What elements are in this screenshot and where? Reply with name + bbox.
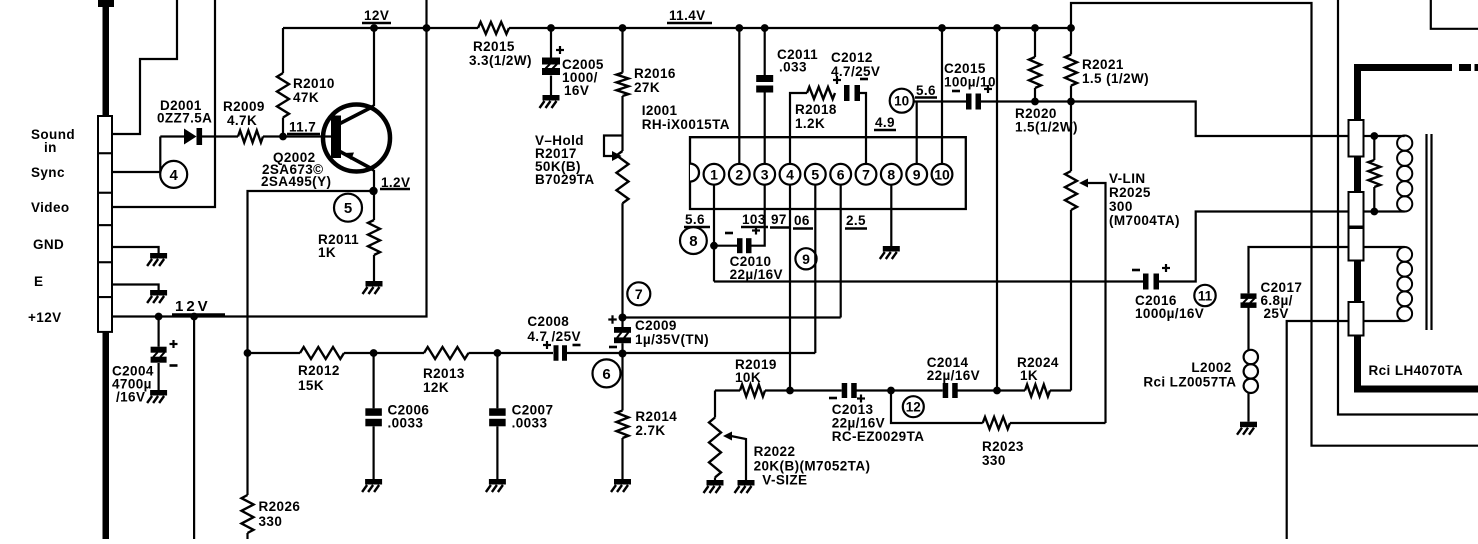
svg-text:5.6: 5.6 <box>916 83 936 98</box>
svg-text:R2025: R2025 <box>1109 185 1151 200</box>
label R2026 <box>259 499 301 529</box>
label D2001 <box>157 98 212 126</box>
svg-text:7: 7 <box>635 286 643 302</box>
capacitor C2015 <box>966 94 981 110</box>
node 6 <box>593 359 621 387</box>
yoke connector box A <box>1349 120 1364 157</box>
wire C2015 to yoke <box>981 102 1349 137</box>
capacitor C2013 <box>842 383 857 398</box>
capacitor C2017 <box>1241 293 1257 308</box>
wire diode anode <box>160 135 184 137</box>
wire pin4 down <box>789 185 791 391</box>
plus C2010 <box>752 227 760 235</box>
ground R2014 <box>611 479 631 492</box>
svg-text:22µ/16V: 22µ/16V <box>730 267 783 282</box>
svg-text:7: 7 <box>862 166 870 182</box>
svg-text:RC-EZ0029TA: RC-EZ0029TA <box>832 429 925 444</box>
wire pin8 to ground <box>890 185 892 246</box>
node 12 <box>903 396 924 417</box>
svg-text:L2002: L2002 <box>1191 360 1231 375</box>
svg-text:5: 5 <box>344 200 352 217</box>
svg-text:V-SIZE: V-SIZE <box>762 473 807 488</box>
svg-text:97: 97 <box>771 212 787 227</box>
yoke core <box>1427 134 1432 330</box>
voltage 5.6 at pin9 <box>915 83 937 98</box>
svg-text:25V: 25V <box>1264 306 1289 321</box>
svg-text:1.2K: 1.2K <box>795 116 825 131</box>
wire diode to R2009 <box>202 135 238 137</box>
diode D2001 <box>184 128 202 145</box>
svg-text:8: 8 <box>689 233 697 250</box>
label C2017 <box>1261 280 1303 321</box>
wire 11.4V to yoke top <box>1071 3 1478 446</box>
svg-text:20K(B)(M7052TA): 20K(B)(M7052TA) <box>754 459 871 474</box>
resistor R2020 <box>1029 28 1041 102</box>
junction pin10 rail <box>938 24 946 32</box>
svg-text:4.7/25V: 4.7/25V <box>831 64 880 79</box>
wire chain <box>248 352 301 354</box>
svg-text:0ZZ7.5A: 0ZZ7.5A <box>157 111 212 126</box>
ground GND pin <box>147 253 167 266</box>
IC pin 5 <box>805 164 826 185</box>
svg-text:R2018: R2018 <box>795 102 837 117</box>
capacitor C2016 <box>1143 274 1159 290</box>
ground R2011 <box>363 281 383 294</box>
svg-text:27K: 27K <box>634 80 660 95</box>
junction R2020 top <box>1031 24 1039 32</box>
label 12V <box>362 8 391 23</box>
svg-text:1µ/35V(TN): 1µ/35V(TN) <box>635 332 709 347</box>
wire pin4 up to R2018 <box>790 93 807 164</box>
wire R2026 down <box>246 353 248 495</box>
plus C2013 <box>857 395 865 403</box>
junction 12V mid <box>190 313 198 321</box>
label R2014 <box>635 409 677 438</box>
IC pin 7 <box>856 164 877 185</box>
plus C2015 <box>984 85 992 93</box>
wire chain 2 <box>344 352 424 354</box>
yoke thick bus top <box>1354 64 1478 120</box>
plus C2012 <box>833 76 841 84</box>
yoke thick bus seg1 <box>1354 157 1361 193</box>
junction base node <box>279 133 287 141</box>
label R2019 <box>735 357 777 385</box>
svg-text:12V: 12V <box>175 298 211 315</box>
svg-text:R2012: R2012 <box>298 363 340 378</box>
power rail 12V/11.4V <box>283 27 1071 29</box>
IC pin 8 <box>881 164 902 185</box>
svg-text:1.5 (1/2W): 1.5 (1/2W) <box>1082 71 1149 86</box>
svg-text:5: 5 <box>811 166 819 182</box>
label C2006 <box>388 403 430 431</box>
junction rail drop <box>993 387 1001 395</box>
label R2016 <box>634 66 676 95</box>
label C2016 <box>1135 293 1204 321</box>
IC pin 4 <box>780 164 801 185</box>
plus C2009 <box>608 315 616 323</box>
minus C2013 <box>829 397 837 400</box>
svg-text:10K: 10K <box>735 370 761 385</box>
label C2007 <box>512 403 554 431</box>
label C2010 <box>730 254 783 282</box>
svg-text:Rci LH4070TA: Rci LH4070TA <box>1369 363 1464 378</box>
svg-text:V-LIN: V-LIN <box>1109 171 1146 186</box>
node 8 <box>680 227 707 254</box>
wire Video to top <box>112 0 215 207</box>
label R2025 <box>1109 171 1180 228</box>
IC pin 2 <box>729 164 750 185</box>
junction C2009 top <box>619 314 627 322</box>
resistor R2021 <box>1065 28 1077 102</box>
ground R2022 <box>704 480 724 493</box>
junction rail drop top <box>993 24 1001 32</box>
junction C2007 <box>494 349 502 357</box>
wire chain 3 <box>469 352 554 354</box>
svg-text:12: 12 <box>906 400 921 415</box>
svg-text:15K: 15K <box>298 378 324 393</box>
label R2024 <box>1017 355 1059 383</box>
capacitor C2011 <box>756 75 773 93</box>
wire top right corner <box>1431 0 1478 29</box>
ground R2022 wiper <box>735 480 755 493</box>
wire C2017 to coil2 <box>1249 247 1349 293</box>
svg-text:3.3(1/2W): 3.3(1/2W) <box>469 53 532 68</box>
label R2015 <box>469 39 532 68</box>
svg-text:47K: 47K <box>293 90 319 105</box>
node 5 <box>334 194 362 222</box>
junction C2011 rail <box>761 24 769 32</box>
svg-text:Video: Video <box>31 200 70 215</box>
capacitor C2004 <box>151 317 167 391</box>
voltage 5.6 at pin1 <box>684 212 710 227</box>
label C2014 <box>927 355 980 383</box>
svg-text:5.6: 5.6 <box>685 212 705 227</box>
label 12V mid <box>172 298 225 315</box>
junction emitter chain <box>244 349 252 357</box>
wire emitter left <box>248 191 375 353</box>
resistor R2023 <box>983 417 1106 429</box>
svg-text:11.4V: 11.4V <box>669 8 706 23</box>
plus C2008 <box>543 341 551 349</box>
potentiometer R2017 V-Hold <box>604 136 629 318</box>
wire vertical right 2 <box>1338 0 1478 415</box>
wire C2016 to yoke <box>1159 212 1374 282</box>
svg-text:2: 2 <box>735 166 743 182</box>
svg-text:3: 3 <box>761 166 769 182</box>
connector board edge (thick bar) <box>98 0 114 539</box>
label Sync <box>31 165 65 180</box>
wire pin1 output <box>714 280 1143 282</box>
junction R2020 bottom <box>1031 98 1039 106</box>
wire C2014 right <box>957 389 1025 391</box>
svg-text:330: 330 <box>259 514 283 529</box>
connector pins (Sound in, Sync, Video, GND, E, +12V) <box>98 116 112 332</box>
IC pin 1 <box>704 164 725 185</box>
svg-text:C2012: C2012 <box>831 50 873 65</box>
svg-text:.0033: .0033 <box>388 416 424 431</box>
voltage 2.5 at pin7 <box>845 213 867 229</box>
svg-text:06: 06 <box>794 213 810 228</box>
capacitor C2007 <box>489 353 506 479</box>
svg-text:1000µ/16V: 1000µ/16V <box>1135 306 1204 321</box>
voltage 103 at pin3 <box>741 212 768 227</box>
junction R2021 bottom <box>1067 98 1075 106</box>
label R2021 <box>1082 57 1149 86</box>
label R2018 <box>795 102 837 131</box>
svg-text:22µ/16V: 22µ/16V <box>927 368 980 383</box>
ground C2004 <box>147 390 167 403</box>
voltage 06 at pin5 <box>793 213 813 229</box>
junction pin2 rail <box>735 24 743 32</box>
IC pin 6 <box>830 164 851 185</box>
svg-text:R2015: R2015 <box>473 39 515 54</box>
voltage 11.7 <box>287 120 320 135</box>
svg-text:2SA495(Y): 2SA495(Y) <box>261 174 331 189</box>
svg-text:.0033: .0033 <box>512 416 548 431</box>
resistor R2010 <box>277 28 289 137</box>
label C2005 <box>562 57 604 98</box>
svg-text:16V: 16V <box>564 83 589 98</box>
capacitor C2008 <box>554 345 568 361</box>
wire pin9 up <box>916 102 918 164</box>
wire box D left <box>1287 321 1349 539</box>
svg-text:R2010: R2010 <box>293 76 335 91</box>
wire C2011 to rail <box>764 28 766 75</box>
ground E pin <box>147 290 167 303</box>
junction coil1 top <box>1370 132 1378 140</box>
svg-text:/16V: /16V <box>116 390 145 405</box>
wire Sync to diode <box>112 137 160 173</box>
transistor Q2002 <box>323 105 390 172</box>
minus C2004 <box>170 364 178 367</box>
wire C2009 top to pin6 <box>623 316 841 318</box>
svg-text:1K: 1K <box>1020 368 1038 383</box>
svg-text:12K: 12K <box>423 380 449 395</box>
svg-text:R2009: R2009 <box>223 99 265 114</box>
ground C2005 <box>540 95 560 108</box>
svg-text:R2013: R2013 <box>423 366 465 381</box>
svg-text:2.5: 2.5 <box>846 213 866 228</box>
wire R2009 to base <box>263 135 331 137</box>
wire pin5 down <box>814 185 816 353</box>
svg-text:(M7004TA): (M7004TA) <box>1109 213 1180 228</box>
svg-text:C2008: C2008 <box>527 314 569 329</box>
svg-text:4: 4 <box>170 167 179 184</box>
svg-text:C2009: C2009 <box>635 318 677 333</box>
svg-text:9: 9 <box>913 166 921 182</box>
label R2013 <box>423 366 465 395</box>
label L2002 <box>1143 360 1236 390</box>
resistor R2014 <box>617 353 629 479</box>
capacitor C2014 <box>943 383 958 398</box>
svg-text:Rci LZ0057TA: Rci LZ0057TA <box>1143 375 1236 390</box>
wire pin1 down <box>713 185 715 282</box>
label +12V <box>28 310 62 325</box>
label R2009 <box>223 99 265 128</box>
minus C2015 <box>952 90 960 93</box>
junction collector rail <box>370 24 378 32</box>
capacitor C2010 <box>714 185 765 253</box>
label C2013 <box>832 402 925 444</box>
wire R2023 net <box>891 391 983 424</box>
plus C2016 <box>1162 264 1170 272</box>
resistor R2024 <box>1025 385 1071 397</box>
potentiometer R2025 V-LIN <box>1065 102 1106 424</box>
svg-text:4.7K: 4.7K <box>227 113 257 128</box>
voltage 1.2V <box>380 175 410 190</box>
yoke connector box C <box>1349 228 1364 261</box>
svg-text:R2016: R2016 <box>634 66 676 81</box>
wire emitter down <box>373 170 375 191</box>
svg-text:R2026: R2026 <box>259 499 301 514</box>
wire pin6 down <box>840 185 842 318</box>
voltage 97 at pin4 <box>770 212 789 228</box>
junction C2009 bottom <box>619 350 627 358</box>
svg-text:2.7K: 2.7K <box>635 423 665 438</box>
power rail 12V mid <box>112 0 430 317</box>
wire rail drop <box>996 28 998 391</box>
minus C2008 <box>573 344 581 347</box>
IC I2001 body <box>690 137 966 209</box>
node 9 <box>795 248 816 269</box>
minus C2010 <box>725 232 733 235</box>
resistor R2013 <box>424 347 469 359</box>
label R2017 <box>535 133 595 187</box>
label GND <box>33 237 64 252</box>
label C2015 <box>944 61 996 90</box>
svg-text:100µ/10: 100µ/10 <box>944 75 996 90</box>
svg-text:4.9: 4.9 <box>875 115 895 130</box>
IC pin 10 <box>932 164 953 185</box>
wire node10 to C2015 <box>914 100 966 102</box>
wire Sound in to top <box>112 0 177 134</box>
yoke thick bus bottom <box>1354 336 1478 393</box>
svg-text:4.7 /25V: 4.7 /25V <box>527 329 581 344</box>
svg-text:R2022: R2022 <box>754 444 796 459</box>
svg-text:B7029TA: B7029TA <box>535 172 595 187</box>
resistor R2019 <box>715 385 790 397</box>
junction C2005 <box>547 24 555 32</box>
wire box A to coil1 <box>1364 135 1375 137</box>
node 4 <box>160 161 187 188</box>
wire collector to rail <box>373 28 375 106</box>
junction C2010 node <box>710 242 718 250</box>
yoke coil 2 <box>1364 247 1413 321</box>
ground L2002 <box>1237 422 1257 435</box>
resistor R2015 <box>478 22 509 34</box>
plus C2004 <box>170 340 178 348</box>
svg-text:1: 1 <box>710 166 718 182</box>
label R2011 <box>318 232 359 260</box>
node 10 <box>890 89 914 113</box>
minus C2012 <box>860 78 868 81</box>
yoke connector box D <box>1349 302 1364 336</box>
IC pin 3 <box>754 164 775 185</box>
svg-text:1.5(1/2W): 1.5(1/2W) <box>1015 120 1078 135</box>
svg-text:11: 11 <box>1198 288 1213 303</box>
resistor R2018 <box>807 87 835 99</box>
junction R2023 tap <box>887 387 895 395</box>
svg-text:in: in <box>44 140 57 155</box>
label R2020 <box>1015 106 1078 135</box>
potentiometer R2022 V-SIZE <box>709 391 746 481</box>
label C2008 <box>527 314 581 344</box>
label C2012 <box>831 50 880 79</box>
wire GND pin <box>112 247 159 253</box>
label Sound in <box>31 127 75 155</box>
wire 12V down <box>193 317 195 540</box>
svg-text:R2021: R2021 <box>1082 57 1124 72</box>
svg-text:300: 300 <box>1109 199 1133 214</box>
svg-text:GND: GND <box>33 237 64 252</box>
node 7 <box>627 282 650 305</box>
yoke thick bus seg2 <box>1354 261 1361 303</box>
label R2010 <box>293 76 335 105</box>
svg-text:10: 10 <box>934 166 950 182</box>
plus C2005 <box>556 46 564 54</box>
svg-text:10: 10 <box>894 94 909 109</box>
resistor R2012 <box>300 347 344 359</box>
wire L2002 to ground <box>1247 393 1249 422</box>
capacitor C2012 <box>844 85 860 101</box>
junction R2021 top <box>1067 24 1075 32</box>
label Q2002 <box>261 150 331 189</box>
IC pin 9 <box>906 164 927 185</box>
svg-text:9: 9 <box>802 251 810 267</box>
junction emitter node <box>369 187 377 195</box>
ground C2007 <box>486 479 506 492</box>
ground C2006 <box>362 479 382 492</box>
junction coil1 bottom <box>1370 208 1378 216</box>
wire pin10 to rail <box>941 28 943 164</box>
svg-text:11.7: 11.7 <box>289 120 316 135</box>
svg-text:E: E <box>34 274 43 289</box>
wire chain 4 <box>567 352 815 354</box>
capacitor C2009 <box>614 318 631 354</box>
resistor R2011 <box>368 191 380 281</box>
label E <box>34 274 43 289</box>
node 11 <box>1194 285 1215 306</box>
wire C2012 to pin7 <box>860 93 866 164</box>
svg-text:R2014: R2014 <box>635 409 677 424</box>
label C2011 <box>777 47 818 75</box>
junction R2016 <box>619 24 627 32</box>
resistor R2016 <box>617 28 629 151</box>
svg-text:1K: 1K <box>318 245 336 260</box>
svg-text:12V: 12V <box>364 8 389 23</box>
wire C2013 net <box>790 389 842 391</box>
label 11.4V <box>667 8 712 23</box>
capacitor C2005 <box>542 28 560 95</box>
label R2023 <box>982 439 1024 468</box>
label Rci LH4070TA <box>1369 363 1464 378</box>
wire E pin <box>112 285 159 291</box>
resistor R2026 <box>242 495 254 539</box>
capacitor C2006 <box>365 353 382 479</box>
wire pin3 up to C2011 <box>764 93 766 164</box>
wire C2017 to L2002 <box>1247 306 1249 350</box>
svg-text:103: 103 <box>742 212 766 227</box>
label R2022 <box>754 444 871 488</box>
junction C2004 <box>155 313 163 321</box>
label C2009 <box>635 318 709 347</box>
svg-text:+12V: +12V <box>28 310 62 325</box>
yoke connector box B <box>1349 192 1364 227</box>
junction pin4 node <box>786 387 794 395</box>
inductor L2002 <box>1244 350 1258 393</box>
resistor R2009 <box>238 131 263 143</box>
yoke coil 1 <box>1374 136 1412 212</box>
